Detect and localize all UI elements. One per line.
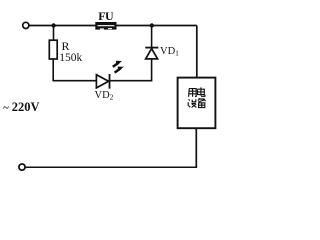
resistor R [49, 40, 57, 59]
node A junction [51, 23, 55, 27]
wire resistor to corner [53, 59, 96, 81]
terminal bottom-left [19, 164, 25, 170]
diode VD1 [145, 48, 158, 59]
wire node A to resistor [53, 26, 55, 41]
wire right vertical to load [196, 26, 198, 78]
LED light arrow 2 [115, 67, 124, 73]
wire load to bottom [195, 128, 197, 167]
wire top horizontal [29, 25, 197, 27]
电 [198, 87, 205, 96]
wire bottom horizontal [26, 166, 198, 168]
用 [189, 89, 197, 97]
label 用电 (drawn glyphs) [189, 87, 205, 96]
svg-text:150k: 150k [59, 52, 82, 64]
terminal top-left [23, 22, 29, 28]
fuse FU [95, 22, 116, 30]
svg-text:R: R [62, 39, 70, 53]
LED light arrow 1 [113, 61, 122, 67]
svg-text:~ 220V: ~ 220V [3, 100, 39, 114]
svg-text:VD1: VD1 [160, 46, 179, 58]
wire LED to corner [110, 59, 152, 80]
load box [178, 78, 216, 129]
node B junction [150, 23, 154, 27]
LED VD2 [96, 74, 109, 89]
svg-text:VD2: VD2 [95, 90, 114, 102]
svg-text:FU: FU [98, 9, 114, 23]
设 [188, 99, 196, 107]
wire VD1 to node B [151, 26, 153, 48]
备 [198, 98, 206, 107]
label 设备 (drawn glyphs) [188, 98, 205, 107]
